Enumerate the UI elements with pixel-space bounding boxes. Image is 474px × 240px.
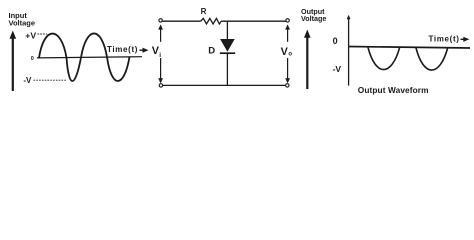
svg-text:R: R [201, 7, 207, 16]
svg-text:-V: -V [333, 64, 342, 74]
svg-text:V: V [281, 46, 289, 58]
svg-text:+V: +V [25, 31, 36, 41]
svg-text:Time(t): Time(t) [429, 35, 460, 44]
svg-text:D: D [208, 45, 215, 56]
svg-text:0: 0 [31, 56, 34, 62]
svg-text:o: o [288, 52, 292, 58]
svg-text:i: i [159, 52, 161, 59]
svg-text:0: 0 [333, 36, 338, 46]
svg-text:Voltage: Voltage [9, 19, 36, 28]
svg-text:Voltage: Voltage [301, 14, 326, 23]
svg-text:Time(t): Time(t) [107, 45, 138, 54]
svg-text:-V: -V [23, 76, 32, 85]
svg-text:Output Waveform: Output Waveform [358, 85, 429, 95]
